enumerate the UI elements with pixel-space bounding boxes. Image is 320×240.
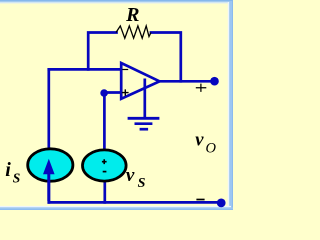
op-amp non-inverting input plus sign: [122, 89, 129, 95]
svg-text:O: O: [206, 141, 217, 157]
right border line: [228, 2, 230, 208]
top border line: [0, 0, 233, 1]
svg-text:v: v: [195, 131, 204, 151]
wire bottom rail: [49, 201, 220, 204]
wire current source bottom lead to bottom rail: [47, 175, 50, 202]
svg-text:S: S: [138, 176, 146, 191]
svg-text:S: S: [13, 171, 21, 186]
wire op-amp output to + terminal: [160, 80, 213, 83]
output + terminal dot: [210, 77, 219, 86]
wire current source top lead: [47, 69, 50, 148]
vS plus sign: [102, 159, 107, 164]
op-amp inverting input minus sign: [122, 69, 128, 71]
ground symbol: [128, 118, 160, 129]
slide background: [0, 0, 233, 210]
op-amp U1 triangle: [121, 63, 159, 99]
svg-text:v: v: [126, 165, 135, 186]
output minus label: [196, 199, 204, 201]
voltage source vS: [83, 150, 127, 181]
wire resistor right lead + feedback vertical to output net: [151, 33, 181, 82]
bottom border line: [0, 206, 231, 208]
wire voltage source bottom lead: [103, 181, 106, 203]
bottom - terminal dot: [217, 199, 226, 208]
wire resistor left lead + left vertical to inverting-input net: [88, 33, 116, 70]
svg-text:R: R: [125, 4, 139, 26]
junction node dot at op-amp + input: [100, 89, 108, 97]
resistor R zigzag: [116, 26, 151, 38]
current source iS: [28, 149, 73, 181]
current source arrow: [47, 174, 50, 202]
wire horizontal net: current source top to op-amp inverting input: [49, 68, 121, 71]
wire op-amp + input to junction: [104, 91, 121, 94]
vS minus sign: [103, 171, 107, 173]
svg-text:i: i: [5, 159, 11, 181]
ground stem from op-amp: [143, 79, 146, 118]
wire junction down to voltage source top: [103, 93, 106, 151]
output plus label: [196, 84, 207, 92]
